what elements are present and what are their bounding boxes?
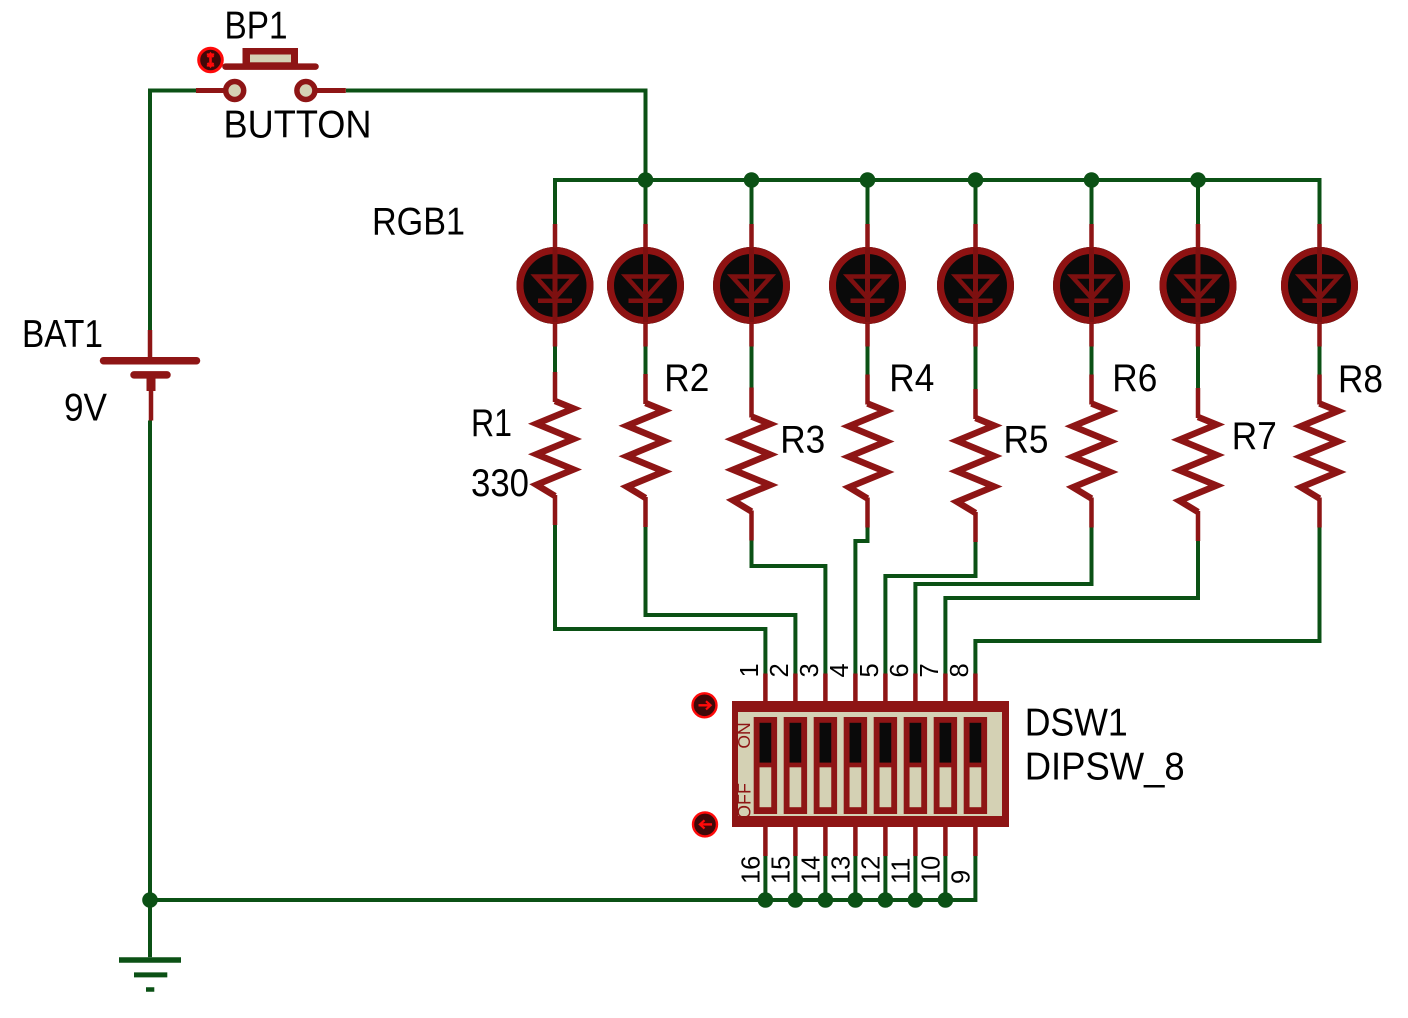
- actuator marker bottom of DSW1: [693, 812, 717, 836]
- svg-text:9: 9: [947, 870, 975, 884]
- junction bus node 5: [1084, 172, 1100, 188]
- pin 16 of DSW1 bottom: [763, 826, 768, 856]
- wire resistor R1 to DIP pin 1: [555, 525, 765, 674]
- LED D5 of RGB1: [937, 224, 1014, 347]
- pin number 11: [887, 858, 915, 884]
- wire battery negative to ground bus: [148, 421, 152, 901]
- label OFF of DSW1: [735, 783, 755, 819]
- svg-text:R3: R3: [780, 418, 825, 461]
- pin number 14: [797, 856, 825, 884]
- wire resistor R2 to DIP pin 2: [646, 527, 796, 674]
- svg-text:DSW1: DSW1: [1025, 702, 1128, 745]
- LED D7 of RGB1: [1160, 224, 1237, 347]
- label R3: [780, 418, 825, 461]
- svg-text:9V: 9V: [64, 387, 107, 430]
- svg-text:6: 6: [886, 663, 914, 677]
- resistor R2: [627, 374, 664, 527]
- pin number 1: [736, 663, 764, 677]
- label DIPSW_8: [1025, 746, 1185, 789]
- pin 3 of DSW1: [823, 674, 828, 703]
- LED D3 of RGB1: [713, 224, 790, 347]
- svg-text:R6: R6: [1112, 357, 1157, 400]
- svg-text:330: 330: [471, 462, 529, 505]
- pin number 7: [916, 663, 944, 677]
- label ON of DSW1: [734, 722, 754, 748]
- svg-text:R7: R7: [1232, 415, 1277, 458]
- label R5: [1004, 418, 1049, 461]
- svg-text:12: 12: [857, 856, 885, 884]
- svg-text:BAT1: BAT1: [22, 313, 103, 356]
- actuator marker of BP1: [199, 48, 223, 72]
- svg-text:R4: R4: [889, 357, 934, 400]
- pin number 10: [917, 856, 945, 884]
- pin 5 of DSW1: [883, 674, 888, 703]
- label BAT1: [22, 313, 103, 356]
- svg-text:RGB1: RGB1: [372, 201, 465, 244]
- wire LED D3 to resistor R3: [750, 346, 754, 388]
- resistor R6: [1073, 375, 1110, 528]
- LED D6 of RGB1: [1053, 224, 1130, 347]
- actuator marker top of DSW1: [693, 693, 717, 717]
- pin 8 of DSW1: [973, 674, 978, 703]
- pin 7 of DSW1: [943, 674, 948, 703]
- pin number 9: [947, 870, 975, 884]
- svg-text:ON: ON: [734, 722, 754, 748]
- wire resistor R4 to DIP pin 4: [855, 528, 867, 674]
- pin 6 of DSW1: [913, 674, 918, 703]
- LED D2 of RGB1: [607, 224, 684, 347]
- svg-text:14: 14: [797, 856, 825, 884]
- pin 9 of DSW1 bottom: [973, 826, 978, 856]
- ground symbol: [119, 900, 181, 990]
- label DSW1: [1025, 702, 1128, 745]
- wire LED D2 to resistor R2: [644, 346, 648, 374]
- junction ground bus node pin 13: [848, 892, 864, 908]
- junction bus node 6: [1190, 172, 1206, 188]
- wire DIP pin 10 to ground bus: [943, 856, 947, 900]
- junction ground bus node pin 16: [758, 892, 774, 908]
- wire bus stub to LED D6: [1090, 180, 1094, 224]
- svg-text:BUTTON: BUTTON: [224, 104, 372, 147]
- junction bus node 3: [860, 172, 876, 188]
- svg-text:5: 5: [856, 663, 884, 677]
- wire bus stub to LED D2: [644, 180, 648, 224]
- wire button to LED bus: [346, 91, 646, 225]
- resistor R7: [1180, 388, 1217, 541]
- pin 4 of DSW1: [853, 674, 858, 703]
- resistor R5: [957, 389, 994, 542]
- svg-text:3: 3: [796, 663, 824, 677]
- pin number 16: [737, 856, 765, 884]
- pin number 12: [857, 856, 885, 884]
- svg-text:2: 2: [766, 663, 794, 677]
- label R6: [1112, 357, 1157, 400]
- resistor R4: [849, 375, 886, 528]
- svg-text:OFF: OFF: [735, 783, 755, 819]
- svg-text:15: 15: [767, 856, 795, 884]
- junction bus node 2: [744, 172, 760, 188]
- wire LED D1 to resistor R1: [553, 346, 557, 372]
- label 330 value of R1: [471, 462, 529, 505]
- wire LED D8 to resistor R8: [1318, 346, 1322, 375]
- svg-text:DIPSW_8: DIPSW_8: [1025, 746, 1185, 789]
- svg-text:R8: R8: [1338, 358, 1383, 401]
- pin number 5: [856, 663, 884, 677]
- svg-text:1: 1: [736, 663, 764, 677]
- junction ground bus node pin 10: [938, 892, 954, 908]
- junction ground node at battery: [142, 892, 158, 908]
- resistor R1: [537, 372, 574, 525]
- wire DIP pin 14 to ground bus: [823, 856, 827, 900]
- wire bus stub to LED D4: [866, 180, 870, 224]
- label R2: [664, 357, 709, 400]
- wire DIP pin 11 to ground bus: [913, 856, 917, 900]
- push button BP1: [196, 48, 346, 100]
- pin 11 of DSW1 bottom: [913, 826, 918, 856]
- pin 10 of DSW1 bottom: [943, 826, 948, 856]
- svg-text:16: 16: [737, 856, 765, 884]
- svg-text:BP1: BP1: [225, 4, 288, 47]
- wire resistor R8 to DIP pin 8: [975, 528, 1319, 674]
- pin 13 of DSW1 bottom: [853, 826, 858, 856]
- resistor R8: [1301, 375, 1338, 528]
- svg-text:13: 13: [827, 856, 855, 884]
- svg-text:7: 7: [916, 663, 944, 677]
- label R8: [1338, 358, 1383, 401]
- wire bus stub to LED D5: [974, 180, 978, 224]
- junction ground bus node pin 11: [908, 892, 924, 908]
- pin number 2: [766, 663, 794, 677]
- pin 12 of DSW1 bottom: [883, 826, 888, 856]
- label 9V value: [64, 387, 107, 430]
- label R4: [889, 357, 934, 400]
- wire DIP pin 15 to ground bus: [793, 856, 797, 900]
- label BUTTON: [224, 104, 372, 147]
- wire bus stub to LED D7: [1196, 180, 1200, 224]
- battery BAT1: [104, 330, 197, 421]
- svg-text:R2: R2: [664, 357, 709, 400]
- label R1: [471, 402, 512, 445]
- wire resistor R6 to DIP pin 6: [915, 528, 1091, 674]
- svg-text:4: 4: [826, 663, 854, 677]
- wire DIP pin 12 to ground bus: [883, 856, 887, 900]
- pin 14 of DSW1 bottom: [823, 826, 828, 856]
- svg-text:R5: R5: [1004, 418, 1049, 461]
- junction bus node 1: [638, 172, 654, 188]
- wire DIP pin 13 to ground bus: [853, 856, 857, 900]
- wire LED bus: [555, 180, 1320, 224]
- svg-text:R1: R1: [471, 402, 512, 445]
- pin 15 of DSW1 bottom: [793, 826, 798, 856]
- wire resistor R7 to DIP pin 7: [945, 541, 1198, 674]
- label R7: [1232, 415, 1277, 458]
- pin number 3: [796, 663, 824, 677]
- pin number 4: [826, 663, 854, 677]
- wire resistor R5 to DIP pin 5: [885, 542, 975, 674]
- pin number 15: [767, 856, 795, 884]
- LED D8 of RGB1: [1281, 224, 1358, 347]
- junction ground bus node pin 12: [878, 892, 894, 908]
- wire bus stub to LED D3: [750, 180, 754, 224]
- pin 2 of DSW1: [793, 674, 798, 703]
- resistor R3: [733, 388, 770, 541]
- wire resistor R3 to DIP pin 3: [752, 541, 826, 674]
- pin 1 of DSW1: [763, 674, 768, 703]
- wire LED D7 to resistor R7: [1196, 346, 1200, 388]
- wire ground bus to DIP pin 9: [150, 856, 975, 900]
- wire LED D5 to resistor R5: [974, 346, 978, 389]
- DIP switch DSW1 body: [732, 701, 1009, 827]
- junction bus node 4: [968, 172, 984, 188]
- label RGB1: [372, 201, 465, 244]
- pin number 8: [946, 663, 974, 677]
- wire battery positive to button: [150, 89, 196, 331]
- pin number 13: [827, 856, 855, 884]
- wire DIP pin 16 to ground bus: [763, 856, 767, 900]
- wire LED D4 to resistor R4: [866, 346, 870, 375]
- LED D1 of RGB1: [517, 224, 594, 347]
- svg-text:10: 10: [917, 856, 945, 884]
- label BP1: [225, 4, 288, 47]
- junction ground bus node pin 14: [818, 892, 834, 908]
- wire LED D6 to resistor R6: [1090, 346, 1094, 375]
- junction ground bus node pin 15: [788, 892, 804, 908]
- pin number 6: [886, 663, 914, 677]
- svg-text:8: 8: [946, 663, 974, 677]
- LED D4 of RGB1: [829, 224, 906, 347]
- svg-text:11: 11: [887, 858, 915, 884]
